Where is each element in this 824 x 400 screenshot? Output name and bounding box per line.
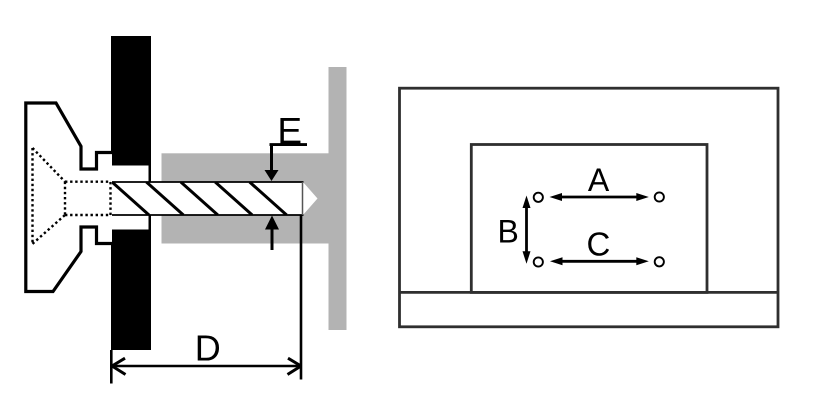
screw shaft body	[111, 182, 303, 215]
shaft thread hatching	[112, 182, 287, 215]
knob body fill	[26, 103, 112, 292]
panel (black plate)	[111, 36, 151, 350]
shaft bottom edge	[111, 214, 304, 216]
dimension A arrow	[560, 196, 638, 199]
E lower arrow line	[271, 228, 274, 250]
E upper arrowhead	[265, 170, 279, 181]
hole top hidden line	[65, 180, 111, 182]
D left extension line	[110, 350, 113, 384]
D right arrowhead	[288, 358, 302, 374]
hole top-right	[655, 192, 664, 201]
hole bottom hidden line	[65, 214, 111, 216]
E upper arrow line	[270, 145, 273, 172]
shelf line	[400, 291, 779, 294]
E underline	[270, 143, 308, 146]
cone mouth vertical	[31, 148, 33, 244]
svg-text:C: C	[586, 226, 610, 263]
bracket horizontal arm (gray)	[162, 153, 329, 243]
screw tip	[303, 182, 318, 215]
E lower arrowhead	[265, 216, 279, 230]
cone upper diagonal	[33, 148, 66, 182]
dimension C arrow	[560, 260, 638, 263]
cone lower diagonal	[33, 215, 66, 244]
hole end at panel face	[109, 182, 111, 215]
svg-text:D: D	[195, 328, 221, 369]
shaft right edge	[302, 182, 304, 215]
knob outline	[26, 103, 112, 292]
svg-text:B: B	[498, 214, 519, 250]
countersink hidden lines (dotted)	[33, 148, 112, 244]
D dimension line	[112, 365, 301, 368]
cone base vertical	[64, 182, 66, 215]
hole bottom-right	[655, 257, 664, 266]
D right extension line	[300, 216, 303, 380]
inner recess rectangle	[471, 145, 707, 293]
D left arrowhead	[112, 358, 126, 374]
hole top-left	[534, 193, 543, 202]
dimension B arrow	[525, 206, 528, 253]
svg-text:A: A	[588, 162, 610, 198]
bracket vertical bar (gray)	[329, 67, 347, 330]
hole bottom-left	[534, 257, 543, 266]
shaft top edge	[111, 181, 304, 183]
outer plate rectangle	[400, 88, 779, 327]
panel hole	[111, 166, 149, 230]
